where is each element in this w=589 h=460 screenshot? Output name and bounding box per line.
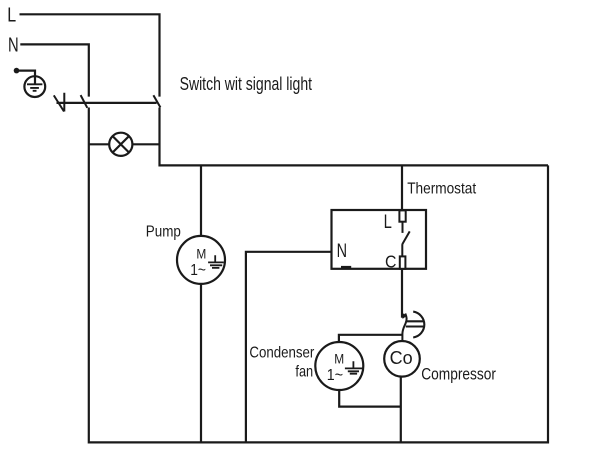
motor M1 pump label M	[196, 246, 206, 262]
thermostat N terminal tick	[341, 266, 351, 269]
label Pump	[146, 224, 181, 241]
wire N from supply to switch pole 1	[20, 43, 89, 96]
wire pump branch drop	[200, 165, 202, 236]
motor M2 fan label 1~	[327, 367, 344, 384]
wire compressor to bottom rail	[400, 377, 402, 443]
wire thermostat C down to overload	[401, 269, 403, 318]
earth symbol E1	[24, 76, 45, 97]
motor M1 pump circle	[177, 236, 225, 284]
svg-text:L: L	[7, 4, 16, 26]
wire fan bottom to compressor bottom	[338, 390, 401, 407]
svg-text:1~: 1~	[190, 262, 206, 279]
wire lamp branch right	[132, 143, 159, 145]
wire thermostat contact to C terminal	[401, 244, 403, 256]
svg-text:Thermostat: Thermostat	[407, 181, 477, 198]
overload protector F1 blade curve	[402, 314, 406, 342]
svg-text:C: C	[385, 251, 396, 271]
wire L from supply to switch pole 2	[20, 13, 160, 96]
svg-text:Switch wit signal light: Switch wit signal light	[180, 74, 313, 94]
motor M2 fan label M	[334, 350, 344, 366]
thermostat box B1	[332, 210, 427, 269]
label Compressor	[421, 365, 496, 383]
wire lamp branch left	[89, 143, 109, 145]
wire thermostat N to neutral drop	[246, 251, 332, 443]
svg-text:1~: 1~	[327, 367, 344, 384]
thermostat terminal C block	[400, 256, 406, 268]
overload protector F1 housing arc	[413, 312, 424, 338]
label Condenser	[249, 344, 314, 361]
earth electrode dot	[14, 68, 20, 74]
switch S1 linkage bar	[57, 102, 157, 104]
svg-text:Co: Co	[390, 348, 413, 368]
overload protector F1 arrow	[401, 312, 407, 319]
thermostat switch blade	[402, 231, 409, 244]
svg-text:Compressor: Compressor	[421, 365, 496, 383]
wire N side: switch pole1 down, bottom rail, right edge up	[89, 108, 548, 443]
switch S1 actuator lever	[54, 93, 65, 112]
thermostat label L	[384, 210, 393, 233]
wire L side: switch pole2 down to top rail corner and right	[158, 108, 548, 166]
svg-text:N: N	[8, 33, 19, 56]
label Thermostat	[407, 181, 477, 198]
thermostat terminal L block	[399, 210, 405, 221]
overload protector F1 contact bars	[406, 321, 424, 326]
node N supply label	[8, 33, 19, 56]
svg-text:N: N	[337, 240, 347, 261]
wire fan branch top	[339, 334, 402, 343]
svg-text:fan: fan	[295, 363, 313, 381]
svg-text:Pump: Pump	[146, 224, 181, 241]
signal lamp H1	[109, 133, 132, 156]
label fan	[295, 363, 313, 381]
svg-text:Condenser: Condenser	[249, 344, 314, 361]
motor M1 pump earth symbol	[208, 255, 224, 268]
wire earth dot to earth symbol	[17, 71, 36, 85]
node L supply label	[7, 4, 16, 26]
thermostat label N	[337, 240, 347, 261]
motor M2 condenser fan circle	[315, 342, 363, 390]
switch S1 pole 2 blade	[153, 95, 160, 107]
wire thermostat branch drop	[401, 165, 403, 210]
wire pump to bottom rail	[200, 284, 202, 443]
svg-text:M: M	[196, 246, 206, 262]
svg-text:L: L	[384, 210, 393, 233]
thermostat label C	[385, 251, 396, 271]
motor M1 pump label 1~	[190, 262, 206, 279]
compressor motor circle Co	[384, 341, 420, 377]
compressor label Co	[390, 348, 413, 368]
svg-text:M: M	[334, 350, 344, 366]
label switch title	[180, 74, 313, 94]
wire thermostat L terminal to contact	[402, 222, 404, 233]
motor M2 fan earth symbol	[345, 361, 362, 374]
switch S1 pole 1 blade	[81, 95, 88, 108]
